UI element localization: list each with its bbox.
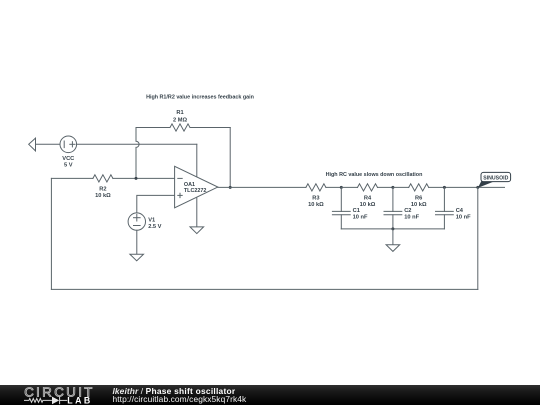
svg-text:VCC: VCC [62,156,74,162]
wire R4 node to R6 [393,186,409,188]
CircuitLab footer bar [0,385,540,405]
svg-text:10 nF: 10 nF [353,215,368,221]
ground below op-amp [190,227,204,234]
svg-text:OA1: OA1 [184,182,195,188]
capacitor C4 10 nF [436,187,472,229]
wire bottom feedback return [51,288,477,290]
resistor R1 2 MΩ [136,110,230,131]
svg-text:2 MΩ: 2 MΩ [173,117,187,123]
ground below V1 [130,254,144,261]
resistor R4 10 kΩ [358,184,393,208]
wire V1 to ground [136,230,138,254]
node junction output to flag [476,186,479,189]
node junction R4/R6/C2 [391,186,394,189]
svg-text:10 kΩ: 10 kΩ [308,202,324,208]
capacitor C2 10 nF [384,187,420,229]
svg-text:10 kΩ: 10 kΩ [360,202,376,208]
node junction R6/C4 [443,186,446,189]
resistor R6 10 kΩ [409,184,478,208]
svg-text:10 kΩ: 10 kΩ [95,193,111,199]
ground below RC ladder [386,245,400,252]
wire op-amp output row [218,186,306,188]
wire feedback row into inverting input [51,177,93,179]
wire R1 left vertical with hop over VCC wire [136,128,139,179]
resistor R3 10 kΩ [306,184,341,208]
capacitor C1 10 nF [332,187,368,229]
wire left vertical of outer feedback loop [50,178,52,289]
svg-text:5 V: 5 V [64,163,73,169]
wire capacitor bottom rail [341,228,444,230]
wire rail to ground [392,229,394,245]
node junction output / R1 [229,186,232,189]
svg-text:C1: C1 [353,208,360,214]
svg-text:10 kΩ: 10 kΩ [411,202,427,208]
node junction bottom rail / ground [391,227,394,230]
wire VCC to op-amp power pin [77,143,197,145]
svg-text:R4: R4 [364,195,372,201]
wire right vertical of feedback loop [477,187,479,289]
annotation: High RC value slows down oscillation [326,172,423,178]
svg-text:R2: R2 [99,187,106,193]
voltage source V1 2.5 V [128,213,162,230]
svg-text:10 nF: 10 nF [404,215,419,221]
CircuitLab logo [0,385,110,405]
node junction R1/R2/inverting input [135,177,138,180]
wire R3 node to R4 [341,186,357,188]
op-amp OA1 TLC2272 [175,166,218,208]
wire op-amp top power pin [196,144,198,176]
resistor R2 10 kΩ [93,175,175,199]
svg-text:R6: R6 [415,195,422,201]
svg-text:R3: R3 [312,195,319,201]
footer title text [113,387,247,404]
voltage source VCC 5 V [60,136,77,169]
svg-text:2.5 V: 2.5 V [148,224,161,230]
wire non-inverting input from V1 [137,195,175,213]
svg-text:C4: C4 [456,208,464,214]
svg-text:C2: C2 [404,208,411,214]
svg-text:High R1/R2 value increases fee: High R1/R2 value increases feedback gain [146,95,254,101]
svg-text:V1: V1 [148,218,155,224]
svg-text:High RC value slows down oscil: High RC value slows down oscillation [326,172,423,178]
node junction R3/R4/C1 [340,186,343,189]
svg-text:TLC2272: TLC2272 [184,188,206,194]
wire op-amp bottom power pin [196,198,198,227]
svg-text:R1: R1 [176,110,183,116]
svg-text:SINUSOID: SINUSOID [483,176,508,182]
flag SINUSOID [478,172,511,188]
wire output stub right [478,186,505,188]
svg-text:10 nF: 10 nF [456,215,471,221]
port arrow (VCC negative terminal) [29,138,36,151]
wire arrow to VCC [36,143,61,145]
svg-text:LAB: LAB [67,395,92,405]
wire R1 right vertical to output [229,128,231,188]
annotation: High R1/R2 value increases feedback gain [146,95,254,101]
